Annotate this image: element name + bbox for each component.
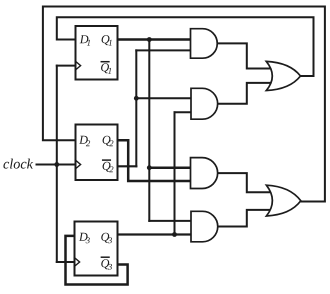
wire Q2-bar output horizontal [118, 165, 137, 167]
label D3 [79, 233, 90, 243]
wire clock stub to FF3 clock pin [57, 261, 75, 263]
label Q2-bar [103, 162, 114, 172]
flip-flop FF1 box [76, 26, 118, 80]
junction dot Q2-bar to AND2 branch [134, 96, 139, 101]
wire OR2 output outer feedback loop to D2 [43, 7, 325, 202]
flip-flop FF2 box [76, 125, 118, 181]
flip-flop FF1 clock triangle [76, 61, 81, 70]
flip-flop FF2 clock triangle [76, 160, 81, 169]
overline of Q1-bar [101, 61, 109, 63]
label Q1-bar [101, 63, 111, 73]
and-gate A1 [191, 29, 218, 59]
and-gate A2 [191, 88, 218, 119]
wire Q2-bar to AND1 input 2 [136, 49, 190, 51]
flip-flop FF3 clock triangle [75, 258, 80, 267]
overline of Q2-bar [103, 159, 111, 161]
wire Q1 branch to AND4 input 1 [149, 220, 191, 222]
label clock [3, 159, 33, 169]
wire Q2 output to AND3 input 2 [118, 140, 191, 181]
wire AND1 output to OR1 input 1 [218, 43, 273, 68]
and-gate A4 [191, 211, 218, 242]
wire clock stub to FF1 clock pin [57, 65, 76, 67]
wire Q1 output to AND1 input 1 [118, 38, 191, 41]
wire clock input line [37, 164, 76, 166]
flip-flop FF3 box [75, 222, 118, 276]
label Q3 [101, 233, 112, 244]
junction dot Q1 to AND3 branch [147, 165, 152, 170]
overline of Q3-bar [101, 256, 109, 258]
wire OR1 output feedback loop to D1 [57, 17, 314, 76]
or-gate O2 [266, 185, 300, 216]
wire Q3 output to AND4 input 2 [118, 233, 192, 235]
label D1 [80, 35, 90, 45]
wire Q3 vertical bus [174, 112, 176, 234]
wire Q2-bar branch to AND2 input 1 [136, 97, 191, 99]
label Q1 [102, 35, 112, 45]
junction dot Q3 to AND2 branch [172, 232, 177, 237]
junction dot on Q1 line [147, 37, 152, 42]
wire AND3 output to OR2 input 1 [218, 173, 273, 192]
wire Q1 branch to AND3 input 1 [149, 166, 190, 169]
wire AND4 output to OR2 input 2 [218, 210, 273, 227]
label Q2 [103, 136, 114, 146]
junction dot clock line [54, 162, 59, 167]
label D2 [79, 136, 90, 146]
wire clock vertical bus [56, 66, 58, 262]
wire Q3 branch to AND2 input 2 [175, 111, 192, 113]
wire Q1 vertical bus [148, 40, 150, 221]
wire Q3-bar feedback loop to D3 [66, 236, 128, 285]
or-gate O1 [266, 61, 300, 90]
wire AND2 output to OR1 input 2 [218, 83, 273, 104]
wire Q2-bar vertical bus [135, 50, 137, 166]
label Q3-bar [101, 259, 112, 270]
and-gate A3 [191, 158, 218, 189]
